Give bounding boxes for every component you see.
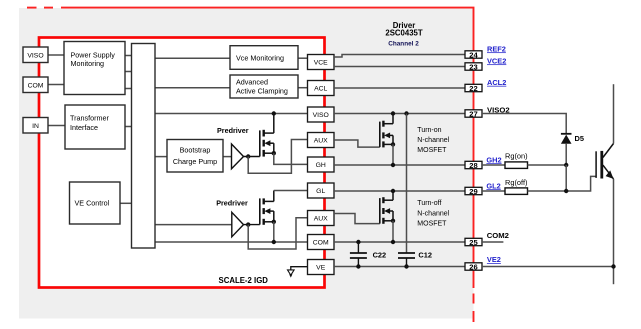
block Bootstrap Charge Pump	[167, 140, 223, 173]
svg-text:Charge Pump: Charge Pump	[173, 157, 217, 166]
svg-text:VISO: VISO	[313, 112, 329, 119]
external turn-off MOSFET Q4	[380, 191, 393, 224]
svg-text:ACL: ACL	[314, 86, 327, 93]
svg-text:VCE2: VCE2	[487, 56, 506, 65]
wire VE Control to bus	[120, 202, 132, 204]
wire Vce Monitoring to VCE box	[298, 57, 308, 59]
junction predriver 1 output	[246, 154, 250, 158]
svg-text:28: 28	[469, 161, 477, 170]
wire Rg(on) to gate node	[528, 164, 567, 166]
wire gate node down to Rg(off) line	[565, 165, 567, 191]
wire predriver 2 output to AUX box 2	[248, 218, 307, 249]
wire predriver 2 output to gate of internal turn-off MOSFET	[244, 224, 260, 226]
svg-text:MOSFET: MOSFET	[417, 147, 447, 154]
resistor Rg(off)	[505, 188, 528, 195]
pin box ACL	[308, 81, 335, 96]
block Transformer Interface	[65, 105, 125, 149]
wire GH to pin 28 GH2	[334, 164, 465, 166]
pin box AUX 2	[308, 211, 335, 226]
svg-text:GH: GH	[316, 162, 326, 169]
svg-text:Interface: Interface	[70, 123, 98, 132]
junction gate node at Rg(off) line	[564, 189, 568, 193]
junction internal turn-on MOSFET drain at VISO rail	[272, 111, 276, 115]
svg-text:24: 24	[469, 50, 478, 59]
svg-text:Turn-off: Turn-off	[417, 200, 441, 207]
wire internal turn-on MOSFET source to GH box	[274, 153, 308, 164]
svg-text:26: 26	[469, 262, 477, 271]
svg-text:AUX: AUX	[314, 138, 328, 145]
wire IN io to Transformer Interface	[48, 125, 65, 127]
svg-text:Rg(on): Rg(on)	[505, 151, 528, 160]
svg-text:D5: D5	[575, 134, 584, 143]
wire COM io to Power Supply Monitoring	[48, 84, 64, 86]
svg-text:Predriver: Predriver	[216, 198, 248, 207]
wire Transformer Interface to bus	[125, 126, 132, 128]
wire bus to Bootstrap Charge Pump	[155, 156, 167, 158]
wire AUX 2 to gate of external turn-off MOSFET	[334, 214, 380, 224]
wire Power Supply Monitoring to bus (2)	[125, 71, 132, 73]
svg-text:Rg(off): Rg(off)	[505, 178, 527, 187]
wire predriver 1 output to gate of internal turn-on MOSFET	[244, 156, 260, 158]
pin 26 box	[465, 262, 482, 271]
pin 24 box	[465, 50, 482, 59]
svg-text:23: 23	[469, 62, 477, 71]
junction C22 bottom at VE2 line	[356, 264, 360, 268]
svg-text:Advanced: Advanced	[236, 77, 268, 86]
wire VE to pin 26 VE2	[334, 266, 465, 268]
svg-text:SCALE-2 IGD: SCALE-2 IGD	[219, 276, 269, 285]
capacitor C22	[350, 242, 367, 267]
wire Advanced Active Clamping to ACL box	[298, 87, 308, 89]
svg-text:2SC0435T: 2SC0435T	[385, 29, 423, 38]
capacitor C12	[398, 253, 415, 267]
pin box VCE	[308, 55, 335, 70]
svg-text:ACL2: ACL2	[487, 78, 506, 87]
junction C22 top at COM2 line	[356, 240, 360, 244]
diode D5	[561, 134, 572, 165]
junction C12 rail at VISO2 line	[404, 111, 408, 115]
wire IGBT collector	[613, 84, 615, 143]
io box COM	[23, 77, 48, 93]
junction external turn-off MOSFET source at COM2 line	[391, 240, 395, 244]
pin box AUX	[308, 133, 335, 148]
wire bus to Advanced Active Clamping	[155, 87, 230, 89]
pin box COM	[308, 235, 335, 250]
svg-text:Vce Monitoring: Vce Monitoring	[236, 53, 284, 62]
svg-text:Bootstrap: Bootstrap	[180, 145, 211, 154]
wire VCE to pin 23 VCE2	[334, 66, 465, 68]
pin 25 box	[465, 238, 482, 247]
wire COM to pin 25 COM2	[334, 241, 465, 243]
io box VISO	[23, 47, 48, 63]
wire VCE to pin 24 REF2	[334, 55, 465, 58]
svg-text:Monitoring: Monitoring	[71, 59, 105, 68]
wire Power Supply Monitoring to bus (1)	[125, 55, 132, 57]
wire VISO2 line down to C12	[406, 114, 408, 254]
svg-text:25: 25	[469, 238, 478, 247]
wire internal turn-off MOSFET source to COM rail	[273, 222, 275, 242]
svg-text:COM: COM	[28, 82, 44, 89]
driver channel-2 shaded region	[19, 8, 474, 319]
external turn-on MOSFET Q3	[380, 114, 393, 148]
svg-text:COM: COM	[313, 240, 329, 247]
pin 29 box	[465, 187, 482, 196]
wire Power Supply Monitoring to bus (3)	[125, 88, 132, 90]
wire AUX to gate of external turn-on MOSFET	[334, 140, 380, 147]
junction internal turn-on MOSFET source	[272, 151, 276, 155]
wire IGBT emitter down	[613, 179, 615, 284]
pin 23 box	[465, 62, 482, 71]
wire pin 25 COM2 stub	[482, 241, 503, 243]
junction external turn-off MOSFET drain at GL2 line	[391, 189, 395, 193]
block Power Supply Monitoring	[64, 42, 125, 95]
wire VISO io to Power Supply Monitoring	[48, 54, 64, 56]
label Turn-on N-channel MOSFET	[417, 127, 449, 154]
pin 22 box	[465, 84, 482, 93]
svg-text:IN: IN	[32, 123, 39, 130]
pin 27 box	[465, 109, 482, 118]
svg-text:VCE: VCE	[314, 60, 328, 67]
label Turn-off N-channel MOSFET	[417, 200, 449, 227]
svg-text:C12: C12	[418, 250, 432, 259]
svg-text:MOSFET: MOSFET	[417, 221, 447, 228]
block Vce Monitoring	[230, 46, 298, 70]
predriver buffer 1	[232, 144, 244, 169]
wire pin 27 VISO2 to diode D5	[482, 114, 566, 134]
predriver buffer 2	[232, 212, 244, 237]
svg-text:VE: VE	[316, 265, 326, 272]
svg-text:Channel 2: Channel 2	[388, 40, 419, 47]
block Advanced Active Clamping	[230, 75, 298, 98]
junction C12 bottom at VE2 line	[404, 264, 408, 268]
pin box GH	[308, 157, 335, 172]
SCALE-2 IGD red box	[39, 38, 325, 288]
wire bus to predriver 2 input	[155, 224, 232, 226]
wire pin 29 GL2 to Rg(off)	[482, 190, 505, 192]
svg-text:Active Clamping: Active Clamping	[236, 86, 288, 95]
wire node VISO internal rail	[155, 113, 308, 115]
wire bus to Vce Monitoring	[155, 57, 230, 59]
wire node COM internal rail	[155, 241, 308, 243]
wire VISO to pin 27 VISO2	[334, 113, 465, 115]
svg-text:22: 22	[469, 84, 477, 93]
svg-text:29: 29	[469, 187, 477, 196]
bus bar	[132, 44, 156, 249]
svg-text:C22: C22	[373, 250, 387, 259]
internal turn-off MOSFET Q2	[260, 191, 274, 225]
svg-text:GL: GL	[316, 188, 325, 195]
svg-text:GL2: GL2	[486, 181, 500, 190]
pin box VISO	[308, 107, 335, 122]
wire pin 28 GH2 to Rg(on)	[482, 164, 505, 166]
wire internal turn-off MOSFET drain to GL box	[274, 190, 308, 192]
wire external turn-off MOSFET source to COM2 line	[392, 221, 394, 242]
block VE Control	[70, 182, 121, 224]
svg-text:VE Control: VE Control	[75, 199, 110, 208]
wire GL to pin 29 GL2	[334, 190, 465, 192]
svg-text:COM2: COM2	[487, 231, 509, 240]
transistor IGBT	[596, 144, 613, 179]
wire predriver 1 output to AUX box	[248, 140, 307, 174]
wire ACL to pin 22 ACL2	[334, 87, 465, 89]
ground symbol at VE	[288, 267, 308, 278]
junction internal turn-off MOSFET source	[272, 220, 276, 224]
junction external turn-off MOSFET source	[391, 219, 395, 223]
internal turn-on MOSFET Q1	[260, 114, 274, 157]
svg-text:N-channel: N-channel	[417, 137, 449, 144]
pin 28 box	[465, 161, 482, 170]
driver 2SC0435T dashed red boundary	[27, 8, 474, 322]
svg-text:GH2: GH2	[486, 155, 501, 164]
pin box GL	[308, 183, 335, 198]
svg-text:27: 27	[469, 109, 477, 118]
junction Rg(on) output at diode anode	[564, 163, 568, 167]
svg-text:REF2: REF2	[487, 44, 506, 53]
resistor Rg(on)	[505, 162, 528, 169]
svg-text:Predriver: Predriver	[217, 126, 249, 135]
wire external turn-on MOSFET source to GH2 line	[392, 144, 394, 165]
junction VE2 at IGBT emitter	[611, 264, 615, 268]
svg-text:VE2: VE2	[487, 255, 501, 264]
junction external turn-on MOSFET drain at VISO2 line	[391, 111, 395, 115]
wire Rg(off) to IGBT gate	[528, 176, 597, 191]
junction predriver 2 output	[246, 222, 250, 226]
pin box VE	[308, 260, 335, 275]
junction internal turn-off MOSFET source at COM rail	[272, 240, 276, 244]
wire Bootstrap Charge Pump to predriver 1	[223, 156, 232, 158]
svg-text:Transformer: Transformer	[70, 113, 109, 122]
svg-text:VISO: VISO	[27, 52, 43, 59]
svg-text:N-channel: N-channel	[417, 210, 449, 217]
junction external turn-on MOSFET source	[391, 142, 395, 146]
io box IN	[23, 118, 48, 134]
svg-text:Turn-on: Turn-on	[417, 127, 441, 134]
wire pin 26 VE2 to IGBT emitter	[482, 266, 614, 268]
svg-text:AUX: AUX	[314, 216, 328, 223]
junction external turn-on MOSFET source at GH2 line	[391, 163, 395, 167]
